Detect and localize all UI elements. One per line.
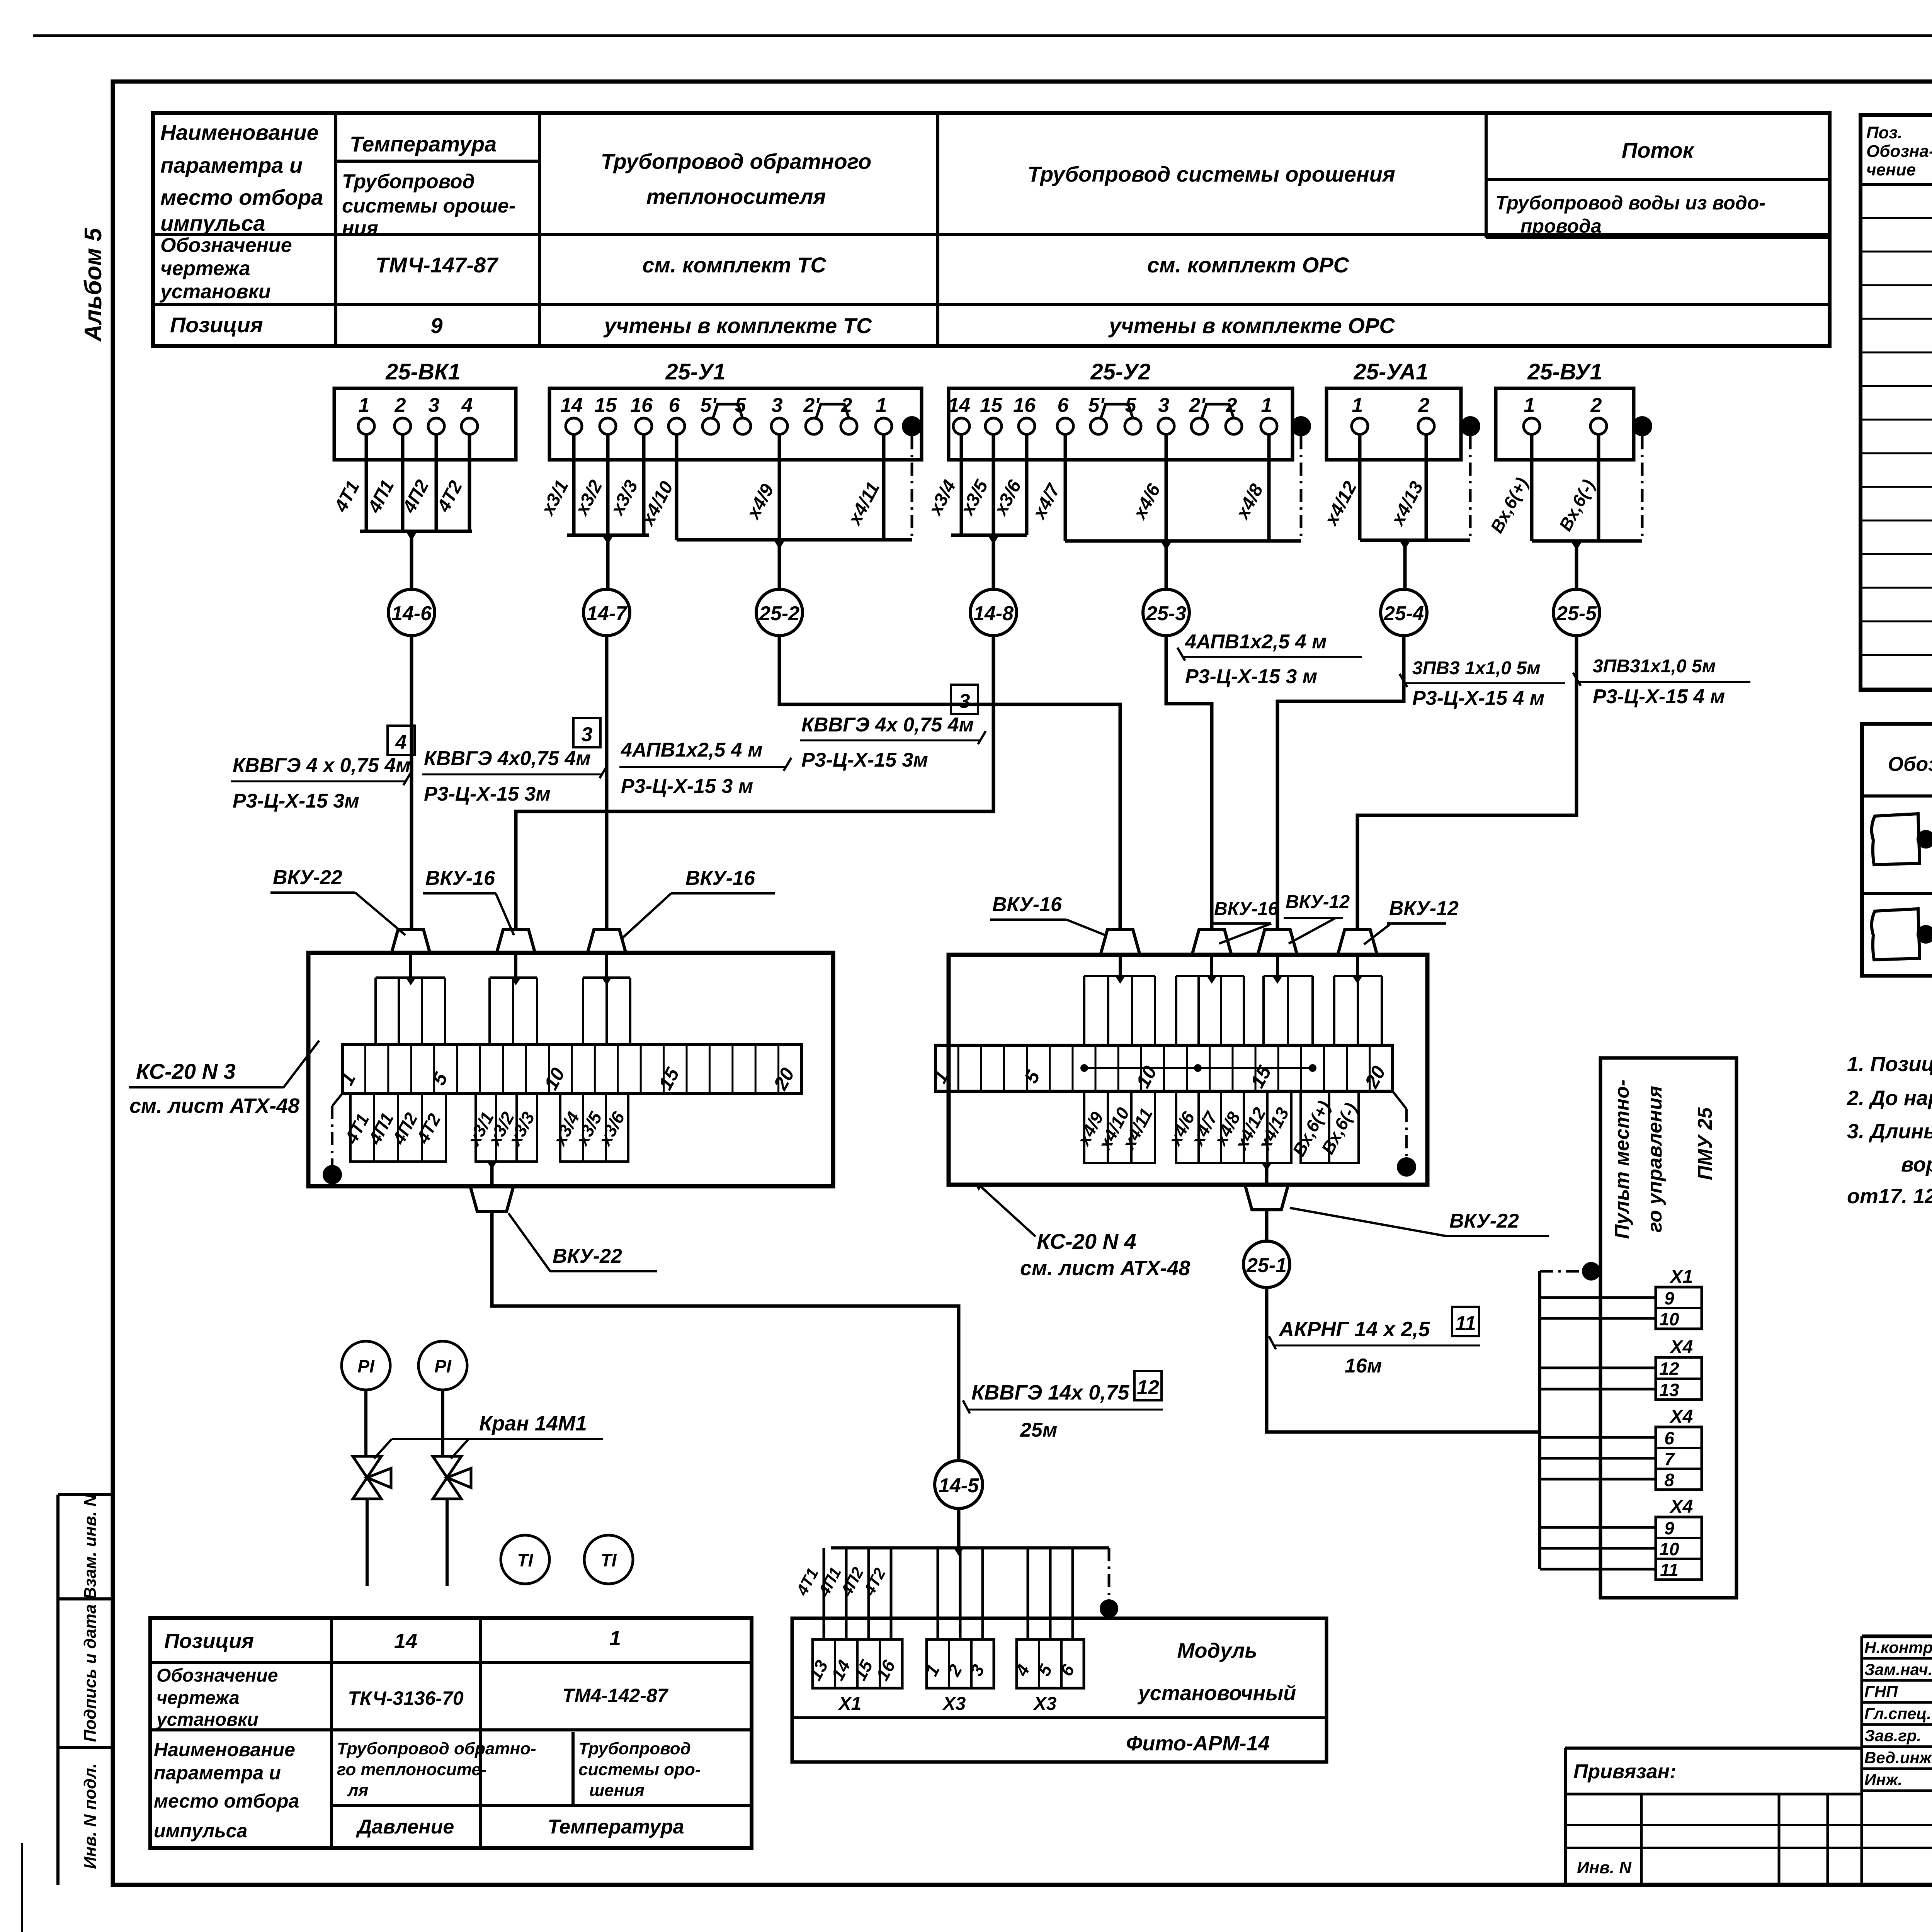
svg-text:Р3-Ц-Х-15 3 м: Р3-Ц-Х-15 3 м [621,775,753,798]
svg-text:14-6: 14-6 [391,602,432,625]
svg-text:Наименование: Наименование [154,1739,295,1760]
svg-text:14: 14 [560,394,583,417]
svg-text:12: 12 [1137,1376,1159,1399]
svg-text:ВКУ-12: ВКУ-12 [1389,897,1459,920]
svg-text:чертежа: чертежа [156,1688,240,1708]
svg-text:4П1: 4П1 [815,1564,845,1599]
svg-text:Х3: Х3 [1033,1694,1057,1714]
svg-text:Трубопровод воды из водо-: Трубопровод воды из водо- [1495,192,1765,214]
svg-text:ТМ4-142-87: ТМ4-142-87 [563,1685,669,1706]
svg-text:Привязан:: Привязан: [1573,1760,1676,1783]
svg-text:КС-20 N 3: КС-20 N 3 [136,1059,236,1083]
svg-text:шения: шения [589,1781,645,1800]
svg-text:1: 1 [336,1069,360,1089]
svg-text:4АПВ1х2,5 4 м: 4АПВ1х2,5 4 м [1185,631,1327,653]
svg-text:системы ороше-: системы ороше- [342,195,515,217]
svg-text:14: 14 [394,1629,417,1653]
svg-text:х3/2: х3/2 [571,477,607,519]
svg-text:Фито-АРМ-14: Фито-АРМ-14 [1126,1732,1269,1755]
svg-text:Обозначение: Обозначение [1888,753,1932,776]
svg-text:1: 1 [609,1627,621,1650]
svg-text:го управления: го управления [1644,1086,1666,1233]
svg-text:ПМУ 25: ПМУ 25 [1694,1107,1716,1180]
svg-text:Вх,6(+): Вх,6(+) [1486,474,1532,536]
svg-text:Х4: Х4 [1669,1337,1693,1357]
svg-text:Х4: Х4 [1669,1406,1693,1427]
svg-text:теплоносителя: теплоносителя [646,184,826,209]
svg-text:Зав.гр.: Зав.гр. [1864,1726,1921,1745]
svg-text:11: 11 [1455,1312,1476,1335]
svg-text:10: 10 [1659,1309,1679,1329]
svg-text:2: 2 [943,1661,966,1680]
svg-text:ТI: ТI [517,1550,534,1570]
svg-text:PI: PI [434,1356,452,1376]
svg-text:импульса: импульса [160,211,265,235]
svg-text:место отбора: место отбора [160,185,323,209]
svg-text:3: 3 [959,690,970,713]
svg-text:4Т1: 4Т1 [793,1565,822,1599]
svg-text:10: 10 [540,1064,569,1094]
svg-text:20: 20 [1361,1062,1390,1092]
svg-text:6: 6 [1058,394,1069,417]
svg-text:4Т1: 4Т1 [330,478,364,516]
svg-text:14-7: 14-7 [587,602,628,625]
svg-text:25-2: 25-2 [759,602,799,625]
svg-text:КВВГЭ 14х 0,75: КВВГЭ 14х 0,75 [971,1381,1129,1404]
svg-text:Трубопровод: Трубопровод [578,1739,691,1758]
svg-text:10: 10 [1132,1062,1161,1092]
svg-text:25-1: 25-1 [1246,1254,1287,1277]
svg-text:3: 3 [772,394,783,417]
svg-text:3: 3 [429,394,440,417]
svg-text:15: 15 [654,1064,684,1093]
svg-text:25-ВУ1: 25-ВУ1 [1527,359,1602,384]
svg-text:3: 3 [966,1661,988,1679]
svg-text:КВВГЭ 4х0,75 4м: КВВГЭ 4х0,75 4м [424,747,591,770]
svg-text:25-У1: 25-У1 [665,359,725,384]
svg-text:Р3-Ц-Х-15 3 м: Р3-Ц-Х-15 3 м [1185,665,1317,688]
svg-text:Давление: Давление [356,1816,454,1838]
svg-text:15: 15 [980,394,1003,417]
svg-text:1: 1 [1524,394,1535,417]
svg-text:Трубопровод системы орошения: Трубопровод системы орошения [1027,162,1395,186]
svg-text:Наименование: Наименование [160,120,319,145]
svg-text:Подпись и дата: Подпись и дата [81,1604,100,1742]
svg-text:Альбом 5: Альбом 5 [80,227,107,342]
svg-text:5: 5 [1034,1661,1056,1679]
svg-text:Трубопровод обратно-: Трубопровод обратно- [337,1739,536,1758]
svg-text:1. Позиции приборов и аппарату: 1. Позиции приборов и аппаратуры указаны… [1847,1053,1932,1076]
svg-text:Позиция: Позиция [164,1629,254,1653]
svg-text:Кран 14М1: Кран 14М1 [479,1412,587,1435]
svg-text:системы оро-: системы оро- [578,1760,701,1779]
svg-text:Н.контр.: Н.контр. [1864,1638,1932,1656]
svg-text:см. комплект ОРС: см. комплект ОРС [1147,253,1350,277]
svg-text:ВКУ-16: ВКУ-16 [1214,899,1278,919]
svg-text:Поток: Поток [1622,138,1695,162]
svg-text:14-5: 14-5 [939,1475,979,1497]
svg-text:4П2: 4П2 [388,1109,422,1148]
svg-text:Модуль: Модуль [1177,1639,1257,1662]
svg-text:25-5: 25-5 [1556,602,1597,625]
svg-text:ВКУ-16: ВКУ-16 [425,867,495,889]
svg-text:1: 1 [1261,394,1272,417]
svg-text:Вх,6(-): Вх,6(-) [1555,476,1599,534]
svg-text:чертежа: чертежа [160,257,250,280]
svg-text:16: 16 [872,1656,899,1684]
svg-text:2: 2 [1590,394,1602,417]
svg-text:ВКУ-22: ВКУ-22 [273,866,342,889]
svg-text:см. комплект ТС: см. комплект ТС [642,253,827,277]
svg-text:х4/12: х4/12 [1320,478,1361,530]
svg-text:4: 4 [1011,1661,1033,1680]
svg-text:см. лист АТХ-48: см. лист АТХ-48 [129,1094,299,1117]
svg-text:ВКУ-22: ВКУ-22 [1449,1210,1519,1232]
svg-text:Вед.инж.: Вед.инж. [1864,1748,1932,1767]
svg-text:учтены в комплекте ОРС: учтены в комплекте ОРС [1108,313,1395,338]
svg-text:Инж.: Инж. [1864,1770,1902,1789]
svg-text:учтены в комплекте ТС: учтены в комплекте ТС [603,313,872,338]
svg-text:параметра и: параметра и [160,153,303,177]
svg-text:2: 2 [1418,394,1430,417]
svg-text:20: 20 [769,1064,799,1094]
svg-text:провода: провода [1520,215,1602,237]
svg-text:25-4: 25-4 [1383,602,1424,625]
svg-text:14-8: 14-8 [973,602,1014,625]
svg-text:9: 9 [1664,1288,1674,1308]
svg-text:9: 9 [430,313,442,338]
svg-text:4Т2: 4Т2 [860,1565,889,1599]
svg-text:3: 3 [582,723,593,746]
svg-text:ТКЧ-3136-70: ТКЧ-3136-70 [348,1687,464,1709]
svg-text:установочный: установочный [1137,1682,1296,1705]
svg-text:х4/8: х4/8 [1232,481,1267,523]
svg-text:4Т1: 4Т1 [341,1110,373,1147]
svg-text:импульса: импульса [154,1820,247,1842]
svg-text:х4/6: х4/6 [1129,481,1165,523]
svg-text:Инв. N подл.: Инв. N подл. [81,1763,100,1869]
svg-text:Х3: Х3 [942,1694,966,1714]
svg-text:АКРНГ 14 х 2,5: АКРНГ 14 х 2,5 [1278,1318,1430,1341]
svg-text:Обозначение: Обозначение [160,234,292,257]
svg-text:1: 1 [1352,394,1363,417]
svg-text:х3/4: х3/4 [925,477,960,519]
svg-text:х4/11: х4/11 [844,479,884,529]
svg-text:4АПВ1х2,5 4 м: 4АПВ1х2,5 4 м [621,739,763,761]
svg-text:Х1: Х1 [1669,1267,1693,1287]
svg-text:Пульт местно-: Пульт местно- [1611,1080,1633,1239]
svg-text:15: 15 [1246,1062,1276,1091]
svg-text:Поз.: Поз. [1866,123,1902,142]
svg-text:25-УА1: 25-УА1 [1354,359,1429,384]
svg-text:место отбора: место отбора [154,1790,299,1812]
svg-text:13: 13 [1659,1380,1679,1400]
svg-text:4Т2: 4Т2 [412,1110,445,1147]
svg-text:от17. 12. 1979 N 89 Д: от17. 12. 1979 N 89 Д [1847,1185,1932,1208]
svg-text:9: 9 [1664,1518,1674,1538]
svg-text:14: 14 [948,394,970,417]
svg-text:ТМЧ-147-87: ТМЧ-147-87 [376,253,499,277]
svg-text:2: 2 [395,394,406,417]
svg-text:Инв. N: Инв. N [1577,1858,1632,1877]
svg-text:Трубопровод: Трубопровод [342,170,475,193]
svg-text:4П1: 4П1 [364,476,398,516]
svg-text:чение: чение [1866,160,1916,179]
svg-text:ВКУ-12: ВКУ-12 [1286,892,1350,912]
svg-text:Х1: Х1 [838,1694,862,1714]
svg-text:6: 6 [669,394,680,417]
svg-text:Р3-Ц-Х-15 3м: Р3-Ц-Х-15 3м [424,783,551,805]
svg-text:Позиция: Позиция [170,313,263,337]
svg-text:15: 15 [594,394,617,417]
svg-text:го теплоносите-: го теплоносите- [337,1760,487,1779]
svg-text:4П1: 4П1 [364,1109,398,1148]
svg-text:Р3-Ц-Х-15 4 м: Р3-Ц-Х-15 4 м [1412,687,1544,709]
svg-text:х3/1: х3/1 [537,477,573,519]
svg-text:ля: ля [347,1781,368,1800]
svg-text:3ПВ31х1,0 5м: 3ПВ31х1,0 5м [1593,656,1716,677]
svg-text:3. Длины кабелей даны с учет: 3. Длины кабелей даны с учетом 6% надбав… [1847,1120,1932,1143]
svg-text:25м: 25м [1020,1419,1057,1441]
svg-text:13: 13 [805,1656,832,1684]
svg-text:вороты и отходы согласно п: вороты и отходы согласно письму Госстроя… [1901,1153,1932,1176]
svg-text:10: 10 [1659,1539,1679,1559]
svg-text:25-3: 25-3 [1146,602,1186,625]
svg-text:ГНП: ГНП [1864,1682,1898,1701]
svg-text:Х4: Х4 [1669,1497,1693,1517]
svg-text:Зам.нач.: Зам.нач. [1864,1660,1932,1679]
svg-text:4П2: 4П2 [837,1564,867,1599]
svg-text:Взам. инв. N: Взам. инв. N [81,1494,100,1599]
svg-text:6: 6 [1664,1428,1674,1448]
svg-text:Р3-Ц-Х-15 3м: Р3-Ц-Х-15 3м [233,790,359,812]
svg-text:Трубопровод обратного: Трубопровод обратного [601,149,871,173]
svg-text:Температура: Температура [350,132,497,156]
svg-text:25-ВК1: 25-ВК1 [385,359,461,384]
svg-text:16м: 16м [1345,1355,1382,1377]
svg-text:Р3-Ц-Х-15 3м: Р3-Ц-Х-15 3м [801,749,928,771]
svg-text:КВВГЭ 4 х 0,75 4м: КВВГЭ 4 х 0,75 4м [233,754,411,777]
svg-text:параметра и: параметра и [154,1762,281,1784]
svg-text:8: 8 [1664,1470,1674,1490]
svg-text:ВКУ-22: ВКУ-22 [553,1245,622,1267]
svg-text:х3/3: х3/3 [607,477,642,519]
svg-text:5: 5 [1020,1067,1044,1087]
svg-text:4Т2: 4Т2 [433,478,466,516]
svg-text:16: 16 [630,394,653,417]
svg-text:Гл.спец.: Гл.спец. [1864,1704,1931,1723]
svg-text:11: 11 [1660,1560,1679,1580]
svg-text:7: 7 [1664,1449,1675,1469]
svg-text:1: 1 [876,394,887,417]
svg-text:Обозначение: Обозначение [156,1665,278,1686]
svg-text:16: 16 [1013,394,1036,417]
svg-text:ТI: ТI [601,1550,617,1570]
svg-text:3ПВ3 1х1,0 5м: 3ПВ3 1х1,0 5м [1412,658,1541,679]
svg-text:25-У2: 25-У2 [1090,359,1150,384]
svg-text:1: 1 [921,1661,944,1679]
svg-text:х4/13: х4/13 [1387,478,1427,530]
svg-text:2. До нарезки кабеля длины тра: 2. До нарезки кабеля длины трасс уточнит… [1847,1087,1932,1110]
svg-text:Р3-Ц-Х-15 4 м: Р3-Ц-Х-15 4 м [1593,685,1725,708]
svg-text:15: 15 [850,1656,877,1684]
svg-text:ВКУ-16: ВКУ-16 [685,867,755,889]
svg-text:ния: ния [342,217,378,240]
svg-text:х4/7: х4/7 [1029,480,1065,523]
svg-text:3: 3 [1158,394,1170,417]
svg-text:PI: PI [357,1356,375,1376]
svg-text:установки: установки [159,281,271,303]
svg-text:6: 6 [1056,1661,1078,1679]
svg-text:см. лист АТХ-48: см. лист АТХ-48 [1020,1257,1190,1280]
svg-text:КВВГЭ 4х 0,75 4м: КВВГЭ 4х 0,75 4м [801,714,974,736]
svg-text:Температура: Температура [548,1816,684,1838]
svg-text:4: 4 [461,394,473,417]
svg-text:КС-20 N 4: КС-20 N 4 [1037,1229,1136,1253]
svg-text:х4/9: х4/9 [743,481,778,523]
svg-text:14: 14 [827,1657,854,1684]
svg-text:4: 4 [395,731,407,753]
svg-text:1: 1 [359,394,370,417]
svg-text:12: 12 [1659,1359,1679,1379]
svg-text:ВКУ-16: ВКУ-16 [992,893,1062,916]
svg-text:5: 5 [428,1069,452,1089]
svg-text:установки: установки [156,1709,259,1730]
svg-text:Обозна-: Обозна- [1866,142,1932,161]
